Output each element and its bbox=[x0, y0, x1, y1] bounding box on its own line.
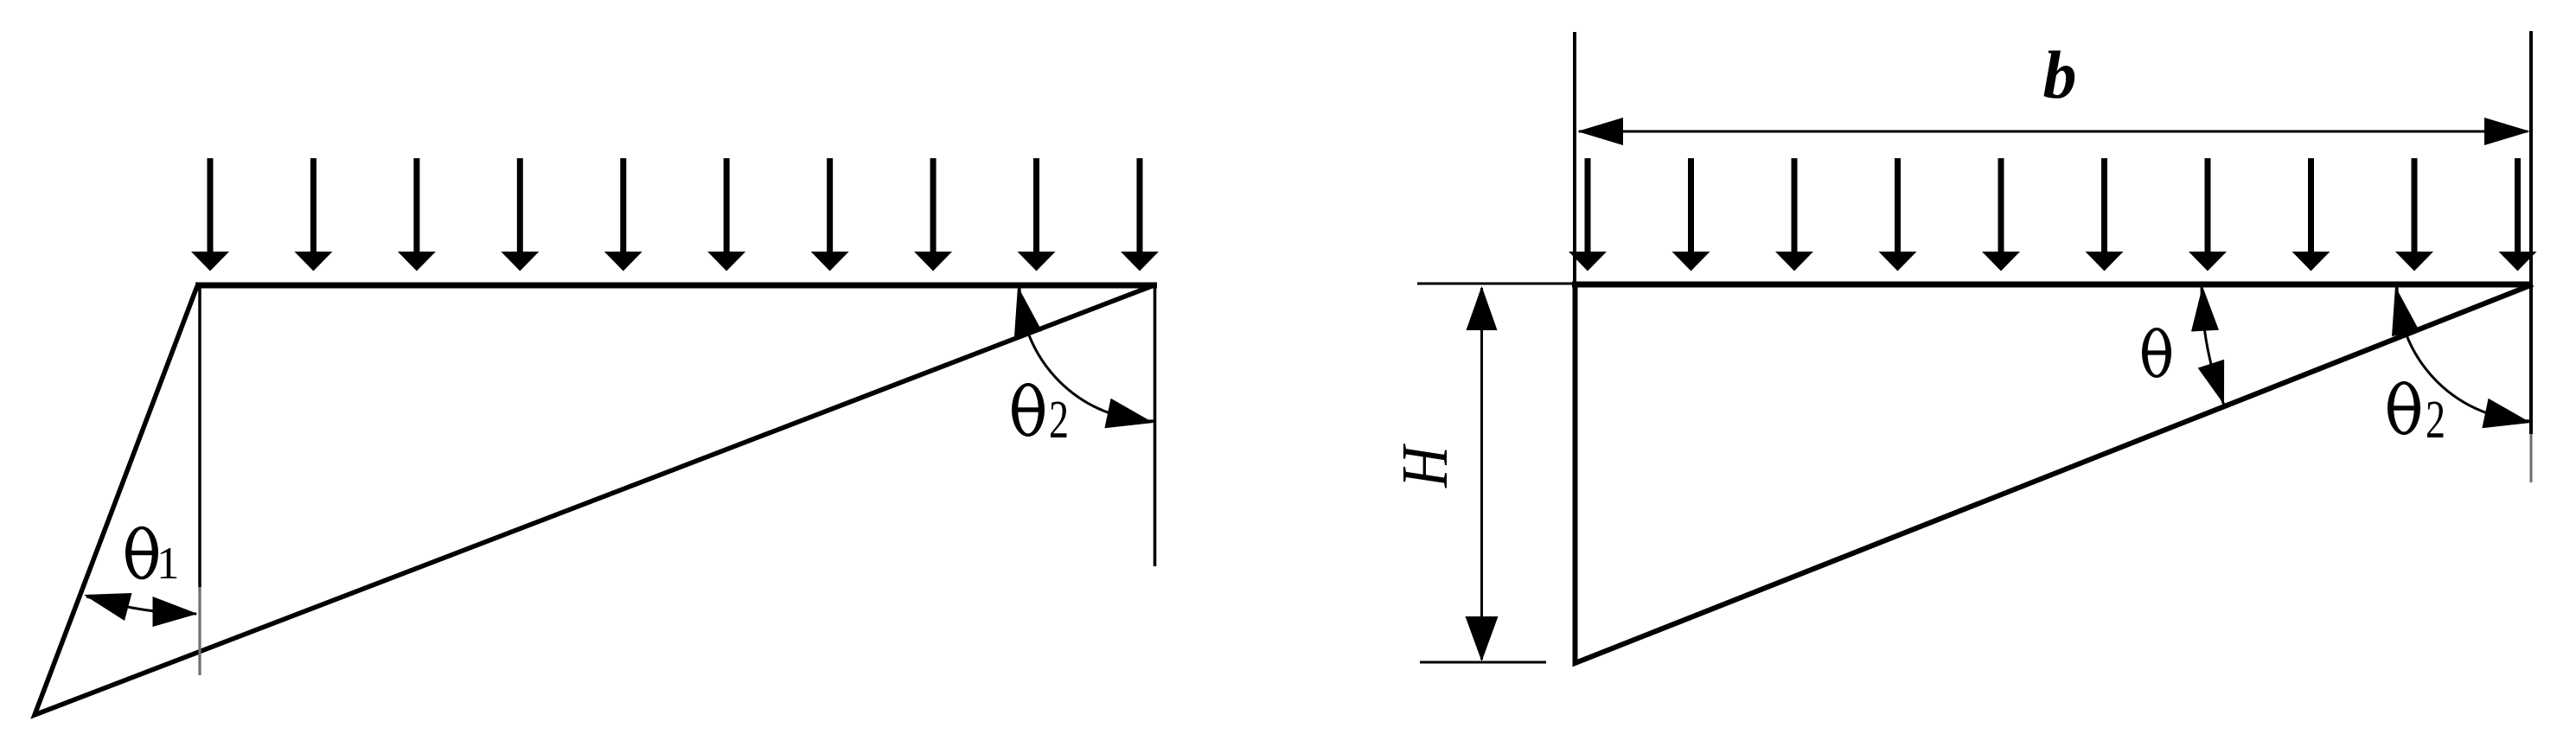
right figure: left extension line above plate bbox=[1573, 32, 1576, 285]
right figure: theta2 arc upper arrowhead bbox=[2392, 286, 2419, 336]
left figure: theta1 left arrowhead bbox=[84, 593, 132, 621]
label theta2 right bbox=[2387, 381, 2420, 435]
right figure: thin top extension line bbox=[1417, 283, 1577, 285]
dimension H bottom tick bbox=[1420, 661, 1546, 664]
left figure: left slant edge and diagonal chord bbox=[35, 284, 1156, 715]
right figure distributed load arrow 9 bbox=[2395, 158, 2433, 271]
left figure: plate top chord bbox=[195, 283, 1157, 289]
left figure: right vertical edge bbox=[1154, 288, 1157, 566]
left figure: theta1 angle connector bbox=[86, 597, 196, 614]
label theta bbox=[2142, 328, 2171, 378]
left figure: theta2 arc upper arrowhead bbox=[1014, 286, 1042, 336]
label theta1 bbox=[125, 526, 158, 580]
left figure distributed load arrow 7 bbox=[811, 158, 849, 271]
right figure distributed load arrow 2 bbox=[1672, 158, 1710, 271]
left figure distributed load arrow 6 bbox=[707, 158, 745, 271]
left figure distributed load arrow 9 bbox=[1018, 158, 1056, 271]
svg-text:2: 2 bbox=[2426, 389, 2445, 450]
right figure: left vertical edge and diagonal chord bbox=[1576, 282, 2534, 663]
right figure distributed load arrow 7 bbox=[2189, 158, 2227, 271]
right figure: theta2 arc lower arrowhead bbox=[2482, 399, 2531, 428]
dimension b line bbox=[1579, 131, 2528, 133]
left figure: thin vertical reference line bbox=[198, 287, 201, 587]
svg-text:H: H bbox=[1390, 444, 1461, 488]
left figure distributed load arrow 3 bbox=[398, 158, 436, 271]
svg-text:2: 2 bbox=[1049, 389, 1069, 450]
left figure distributed load arrow 8 bbox=[914, 158, 952, 271]
right figure: theta arc lower arrowhead bbox=[2198, 360, 2224, 405]
left figure distributed load arrow 4 bbox=[501, 158, 539, 271]
right figure: theta arc upper arrowhead bbox=[2191, 286, 2219, 332]
right figure distributed load arrow 10 bbox=[2499, 158, 2537, 271]
left figure distributed load arrow 2 bbox=[294, 158, 332, 271]
svg-text:1: 1 bbox=[157, 539, 180, 589]
right figure distributed load arrow 8 bbox=[2292, 158, 2330, 271]
dimension H lower arrowhead bbox=[1466, 616, 1499, 661]
dimension b left arrowhead bbox=[1577, 118, 1623, 145]
label theta2 left bbox=[1012, 383, 1045, 437]
left figure distributed load arrow 10 bbox=[1121, 158, 1159, 271]
svg-text:b: b bbox=[2043, 37, 2077, 112]
left figure distributed load arrow 1 bbox=[191, 158, 229, 271]
right figure: angle theta2 arc bbox=[2397, 285, 2533, 421]
right figure distributed load arrow 1 bbox=[1569, 158, 1607, 271]
left figure distributed load arrow 5 bbox=[604, 158, 642, 271]
right figure distributed load arrow 6 bbox=[2086, 158, 2124, 271]
dimension H upper arrowhead bbox=[1467, 286, 1498, 330]
dimension H shaft bbox=[1480, 288, 1483, 660]
right figure: plate top chord bbox=[1572, 282, 2533, 288]
left figure: theta2 arc lower arrowhead bbox=[1104, 399, 1154, 428]
left figure: theta1 right arrowhead bbox=[153, 597, 198, 627]
right figure distributed load arrow 4 bbox=[1879, 158, 1917, 271]
dimension b right arrowhead bbox=[2484, 118, 2530, 145]
right figure distributed load arrow 3 bbox=[1775, 158, 1813, 271]
right figure: angle theta arc bbox=[2202, 285, 2225, 407]
right figure: right extension line bbox=[2529, 31, 2533, 434]
left figure: angle theta2 arc bbox=[1020, 285, 1155, 421]
right figure distributed load arrow 5 bbox=[1982, 158, 2020, 271]
